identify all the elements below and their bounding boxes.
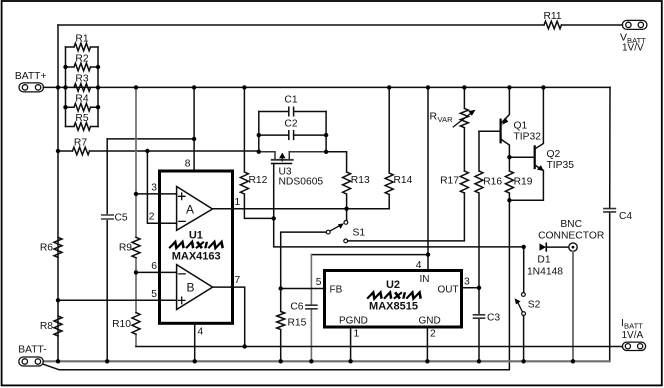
svg-text:BNC: BNC [560,219,582,230]
svg-text:U1: U1 [189,230,203,242]
wire C1C2 right bracket [325,112,327,152]
svg-text:1V/A: 1V/A [622,330,644,341]
U1 labels [172,230,221,263]
capacitor C1 [259,107,326,116]
svg-text:R4: R4 [75,94,88,105]
resistor R11 [544,21,562,29]
svg-text:GND: GND [419,316,441,327]
svg-text:R15: R15 [288,318,307,329]
svg-text:5: 5 [316,277,322,288]
svg-text:C1: C1 [284,95,297,106]
resistor bank R1-R5 brackets [66,47,99,127]
svg-text:R: R [430,111,438,123]
regulator U2 box [325,271,462,328]
resistor R1 [66,43,99,51]
wire R9/R10 column [135,87,137,346]
svg-text:R6: R6 [40,243,53,254]
resistor R10 [132,313,140,335]
svg-text:3: 3 [151,183,157,194]
svg-text:R13: R13 [351,175,370,186]
svg-text:R17: R17 [440,176,459,187]
svg-text:CONNECTOR: CONNECTOR [538,231,604,242]
wire pin4 [194,323,196,361]
wire pin1 output [231,208,347,210]
svg-text:1V/V: 1V/V [622,43,644,54]
capacitor C3 [478,288,480,362]
svg-text:C6: C6 [290,302,303,313]
op-amp U1 box [160,171,233,323]
svg-text:D1: D1 [537,255,550,266]
wire FB line [281,288,325,290]
svg-text:Q1: Q1 [514,121,528,132]
wire BATT+ rail [44,86,611,88]
svg-text:R10: R10 [112,319,131,330]
svg-text:R12: R12 [249,175,268,186]
resistor R15 [277,289,285,362]
svg-text:R1: R1 [75,34,88,45]
wire top rail [58,24,623,26]
svg-text:8: 8 [185,159,191,170]
wire bus2 ground [44,360,610,362]
MAXIM logo U1 [169,242,224,248]
svg-text:R19: R19 [514,177,533,188]
svg-text:R11: R11 [543,11,561,22]
svg-text:S1: S1 [353,228,366,239]
svg-text:MAX4163: MAX4163 [172,251,221,263]
svg-text:U2: U2 [386,279,400,291]
svg-text:2: 2 [149,212,155,223]
resistor R6 [54,237,62,257]
svg-text:R7: R7 [74,138,87,149]
resistor R19 [505,157,513,200]
op-amp U1 B [177,265,213,310]
svg-text:R9: R9 [119,243,132,254]
transistor Q1 TIP32 [500,120,502,143]
svg-text:MAX8515: MAX8515 [369,301,418,313]
svg-text:OUT: OUT [438,285,459,296]
wire S1 lower throw to R17 [348,193,465,241]
svg-text:BATT-: BATT- [18,345,46,356]
svg-text:R3: R3 [75,74,88,85]
svg-text:C3: C3 [487,313,500,324]
svg-text:TIP32: TIP32 [514,132,542,143]
wire C1C2 left bracket [258,112,260,152]
resistor R4 [66,103,99,111]
wire bus1 output [136,346,622,348]
resistor R17 [460,171,468,193]
svg-text:C2: C2 [284,119,297,130]
resistor R5 [66,123,99,131]
svg-text:A: A [186,203,194,217]
capacitor C5 [106,139,108,361]
switch S2 [523,247,525,293]
wire pin6 [136,271,160,273]
svg-text:R8: R8 [40,321,53,332]
svg-text:R5: R5 [75,113,88,124]
resistor R13 [326,152,351,209]
svg-text:1: 1 [354,329,360,340]
resistor R14 [347,87,394,208]
transistor U3 NDS0605 [259,152,326,159]
wire left rail [57,25,59,361]
svg-text:C5: C5 [115,213,128,224]
terminal IBATT [621,317,644,341]
wire IN vertical [427,87,429,270]
svg-text:5: 5 [151,289,157,300]
svg-text:NDS0605: NDS0605 [279,177,324,188]
resistor R12 [240,87,273,218]
wire GND pin [426,327,428,361]
svg-text:BATT+: BATT+ [15,71,47,82]
svg-text:1: 1 [235,197,241,208]
wire pin5 [58,299,160,301]
svg-text:IN: IN [420,274,430,285]
svg-text:R16: R16 [483,177,502,188]
wire pin2 tap [147,151,159,223]
wire PGND pin [350,327,352,361]
svg-text:3: 3 [464,277,470,288]
wire OUT pin [462,287,480,289]
svg-text:VAR: VAR [438,115,454,124]
capacitor C2 [259,131,326,140]
wire C5 branch top [107,138,194,140]
capacitor C4 [609,87,611,361]
terminal VBATT [622,20,647,29]
wire R19 sense down [44,200,510,369]
resistor RVAR [460,87,468,171]
resistor R7 [58,147,259,155]
svg-text:1N4148: 1N4148 [527,267,563,278]
svg-text:Q2: Q2 [547,149,561,160]
wire pin7 output [231,287,245,346]
resistor R2 [66,63,99,71]
wire BNC shield down [572,251,574,361]
wire pin8 vertical [193,87,195,171]
resistor R9 [132,237,140,257]
svg-text:6: 6 [151,261,157,272]
BNC connector [569,243,577,251]
wire pin3 [136,193,160,195]
switch S1 [346,209,348,221]
svg-text:B: B [187,281,195,295]
svg-text:4: 4 [416,260,422,271]
svg-text:7: 7 [235,275,241,286]
capacitor C6 [310,255,312,362]
op-amp U1 A [177,187,213,231]
svg-text:S2: S2 [528,300,541,311]
svg-text:2: 2 [430,329,436,340]
svg-text:4: 4 [198,327,204,338]
svg-text:R14: R14 [394,175,413,186]
svg-text:PGND: PGND [339,316,368,327]
resistor R3 [74,84,91,92]
resistor R16 [475,131,483,288]
svg-text:R2: R2 [75,54,88,65]
transistor Q2 TIP35 [534,146,536,168]
svg-text:C4: C4 [619,211,632,222]
svg-text:FB: FB [330,285,343,296]
wire S1 common to FB [281,232,327,288]
wire U3 gate to D1 line [274,164,524,247]
wire IN to C6 [311,254,428,256]
resistor R8 [54,316,62,336]
diode D1 [540,243,547,250]
svg-text:TIP35: TIP35 [547,160,575,171]
MAXIM logo U2 [367,292,422,298]
